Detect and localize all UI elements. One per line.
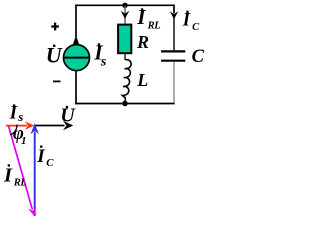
capacitor C [161,51,185,60]
svg-text:s: s [100,55,107,70]
angle arc phi1 [10,125,17,135]
svg-text:U: U [60,104,76,126]
wire arrow to capacitor [173,17,175,50]
vector U (black) [35,121,74,130]
node bottom junction [122,101,128,107]
node top junction [122,3,127,8]
svg-text:I: I [3,164,13,186]
current source Is [64,35,90,70]
svg-text:C: C [192,47,205,67]
wire R to L [124,54,126,60]
label U source [46,43,63,68]
wire L to bottom [124,100,126,103]
svg-text:C: C [46,157,54,169]
wire capacitor to bottom [173,62,175,103]
label IRL branch [136,5,160,31]
svg-text:I: I [36,146,45,167]
wire bottom [75,103,175,105]
svg-text:C: C [192,22,200,33]
label Is vector [9,103,24,125]
wire left bottom [75,71,77,105]
label IC vector [36,146,54,170]
svg-text:1: 1 [21,135,27,147]
vector Is (red) [6,121,34,129]
wire left top [75,5,77,38]
svg-text:R: R [136,32,149,52]
label IRL vector [3,164,27,188]
label phi1 [13,124,27,147]
resistor R [118,25,131,54]
label Is source [93,40,107,69]
wire right top [173,5,175,14]
label minus [53,80,61,82]
label U vector [60,104,76,126]
wire top [75,4,175,6]
vector IC (blue) [31,123,39,216]
svg-text:RL: RL [147,20,161,31]
svg-text:L: L [136,70,148,90]
vector IRL (magenta) [9,126,36,216]
inductor L [122,60,131,101]
label plus [51,23,59,31]
svg-text:s: s [17,109,23,124]
svg-text:I: I [182,10,191,30]
current arrow IRL [121,5,130,23]
current arrow IC [170,11,179,19]
svg-text:RL: RL [13,178,27,189]
label IC branch [182,10,200,33]
